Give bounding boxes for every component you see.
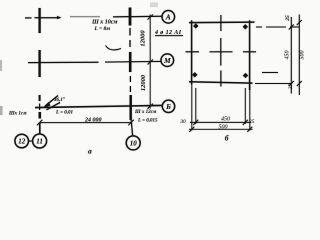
anchor bolt bottom-right	[243, 73, 248, 78]
anchor bolt top-right	[243, 24, 248, 29]
grid bubble B	[162, 100, 174, 112]
svg-text:25: 25	[249, 119, 255, 125]
svg-text:Б: Б	[165, 102, 171, 111]
axis line A horizontal y=17	[25, 16, 162, 19]
bottom extension line bolt-left	[195, 88, 197, 124]
svg-text:L = 8м: L = 8м	[94, 26, 111, 32]
svg-text:500: 500	[219, 124, 228, 130]
axis line M horizontal y=62	[28, 61, 161, 62]
svg-text:4 ø 12 АI: 4 ø 12 АI	[154, 30, 182, 36]
dashed vertical axis x=39 lower part	[39, 95, 41, 134]
bottom dimension line 500	[189, 127, 253, 132]
centreline tick left edge	[186, 51, 200, 53]
grid bubble M	[161, 54, 174, 67]
leader squiggle	[106, 46, 122, 50]
svg-text:12000: 12000	[140, 74, 147, 91]
bottom extension line square-left	[191, 85, 193, 131]
tie line between bubbles 12 and 11	[29, 140, 33, 142]
centreline tick bottom edge	[220, 71, 222, 87]
svg-text:24 000: 24 000	[84, 118, 102, 124]
cross stroke on axis A at x=39	[38, 8, 40, 33]
dimension line 24000 y=122.5	[37, 120, 134, 125]
grid bubble 11	[33, 134, 47, 148]
centreline tick top edge	[220, 15, 222, 31]
svg-text:М: М	[163, 56, 171, 65]
bottom dimension line 450	[190, 120, 251, 125]
svg-text:А: А	[165, 13, 171, 22]
right extension dash-dot y=27	[256, 26, 300, 28]
vertical dimension line x=150	[148, 15, 154, 109]
svg-text:б: б	[225, 134, 229, 143]
svg-text:L = 0,01: L = 0,01	[55, 111, 73, 116]
svg-text:Ш х 12см: Ш х 12см	[134, 110, 157, 115]
svg-text:Ш х 10см: Ш х 10см	[91, 20, 118, 26]
dashed vertical axis x=130	[130, 28, 133, 136]
svg-text:450: 450	[221, 115, 230, 122]
grid bubble A	[162, 10, 175, 23]
cross stroke on axis M at x=39	[38, 50, 40, 77]
footing centre cross	[210, 38, 233, 66]
vertical dimension line 450 x=291	[289, 17, 294, 94]
bottom extension line bolt-right	[244, 88, 246, 124]
centreline tick right edge	[243, 51, 256, 53]
grid bubble 10	[126, 136, 140, 150]
right extension dashes y=72.5	[262, 72, 278, 74]
right extension line y=83.5	[255, 83, 292, 85]
axis line B horizontal y=106	[35, 105, 162, 107]
svg-text:L = 0,015: L = 0,015	[137, 119, 158, 124]
anchor bolt top-left	[193, 23, 198, 28]
svg-text:12: 12	[18, 138, 26, 146]
svg-text:10: 10	[130, 140, 138, 148]
footing square outline	[189, 20, 255, 90]
svg-text:25: 25	[285, 15, 291, 22]
vertical dimension line 500 x=299	[297, 15, 302, 96]
svg-text:500: 500	[299, 51, 305, 60]
scan smudge left edge lower	[0, 106, 3, 115]
svg-text:12000: 12000	[140, 30, 147, 47]
scan smudge near bubble A	[150, 3, 158, 8]
underline of rebar note	[155, 35, 183, 37]
svg-text:30: 30	[179, 119, 186, 125]
inclined pile arrow at axis B	[43, 96, 60, 110]
anchor bolt bottom-left	[192, 72, 197, 77]
scan smudge left edge upper	[0, 60, 2, 71]
svg-text:а: а	[88, 147, 92, 156]
svg-text:11: 11	[36, 138, 43, 146]
bottom extension line square-right	[249, 85, 251, 131]
svg-text:36,1°: 36,1°	[53, 98, 65, 103]
grid bubble 12	[15, 134, 29, 148]
cross stroke on axis A at x=130	[129, 8, 132, 26]
svg-text:Шх 1см: Шх 1см	[8, 112, 27, 117]
svg-text:450: 450	[284, 51, 291, 60]
svg-text:25: 25	[288, 84, 294, 90]
